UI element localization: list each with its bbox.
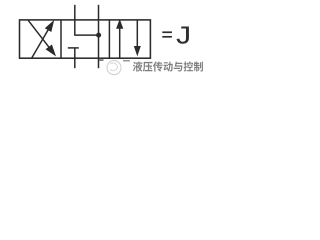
valve body rectangle — [20, 20, 151, 58]
bottom-left blocked port stub — [74, 48, 76, 68]
left cell crossed arrow up-right — [32, 28, 50, 59]
watermark logo circle swirl — [107, 61, 121, 75]
watermark right dash — [123, 60, 130, 62]
equals sign — [162, 31, 172, 33]
letter J label — [177, 27, 189, 44]
divider between left and centre squares — [60, 20, 62, 58]
port B line top-right through body to bottom port — [98, 5, 100, 68]
port A line top-left of centre cell down to elbow — [74, 5, 76, 35]
elbow wire across to junction — [74, 34, 98, 36]
junction dot — [96, 33, 101, 38]
right cell up arrow — [119, 27, 121, 58]
watermark left dash — [99, 59, 103, 60]
left cell crossed arrow down-right — [28, 20, 51, 49]
blocked-port T bar — [68, 47, 79, 49]
divider between centre and right squares — [108, 20, 110, 58]
watermark text — [133, 61, 203, 71]
right cell down arrow — [136, 20, 138, 48]
